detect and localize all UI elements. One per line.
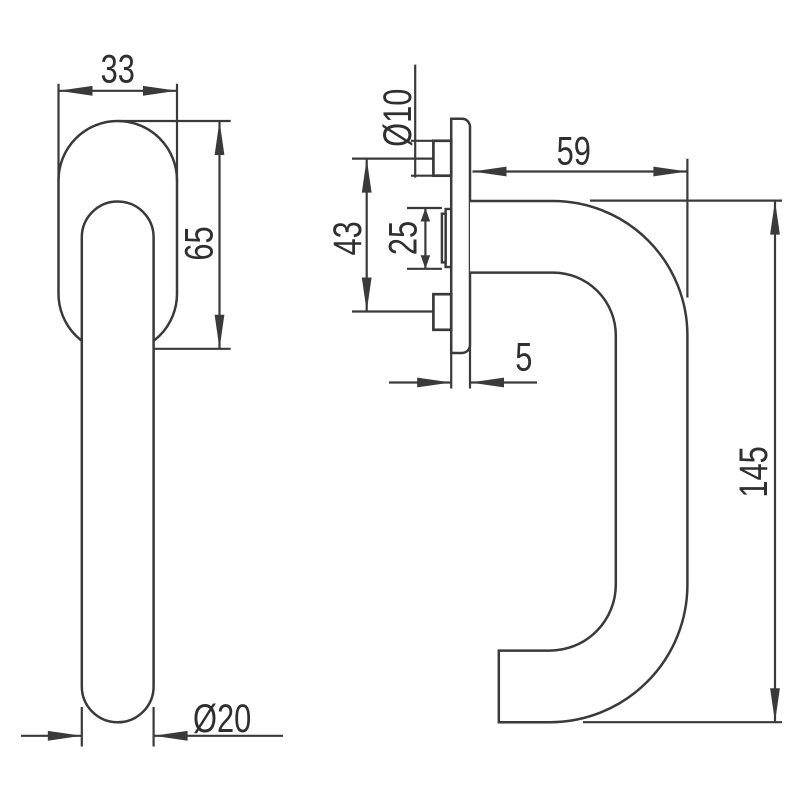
- svg-text:25: 25: [381, 221, 426, 255]
- svg-text:59: 59: [557, 129, 591, 174]
- svg-text:Ø20: Ø20: [193, 696, 251, 741]
- svg-text:33: 33: [101, 47, 135, 92]
- svg-text:43: 43: [325, 221, 370, 255]
- svg-text:5: 5: [515, 335, 532, 380]
- svg-text:65: 65: [177, 226, 222, 260]
- svg-text:145: 145: [731, 446, 776, 497]
- svg-text:Ø10: Ø10: [375, 89, 420, 147]
